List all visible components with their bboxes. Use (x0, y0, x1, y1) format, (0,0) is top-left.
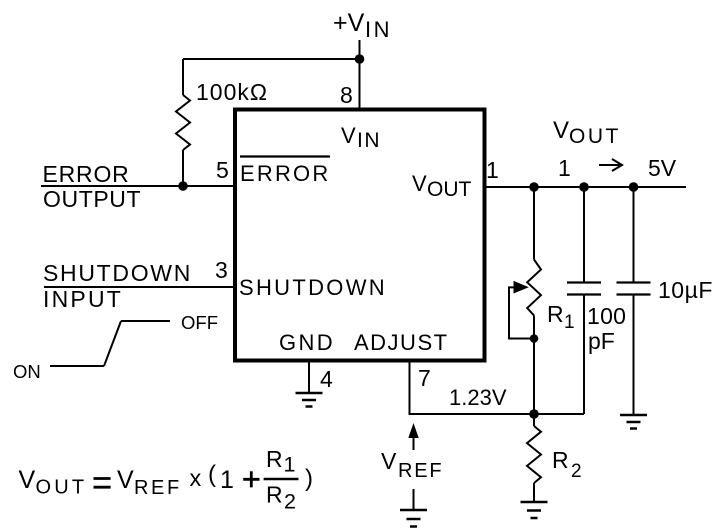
svg-text:1: 1 (486, 157, 499, 183)
capacitor 10uF top lead (633, 187, 635, 283)
svg-text:ERROR: ERROR (240, 161, 330, 186)
wire: pin 4 GND lead (308, 360, 310, 393)
resistor R2 bottom lead (533, 483, 535, 502)
wire: pin 7 ADJUST lead (410, 360, 585, 414)
switch waveform edge (104, 321, 121, 366)
svg-text:V: V (19, 466, 36, 494)
junction dot at +VIN node (355, 54, 365, 64)
svg-text:OUT: OUT (569, 125, 621, 148)
potentiometer R1 zigzag (527, 260, 541, 316)
svg-text:x: x (190, 465, 202, 491)
R1 wiper arrow (514, 282, 528, 293)
junction dot 10uF top (629, 182, 639, 192)
junction dot wiper to R1 bottom (530, 334, 539, 343)
svg-text:V: V (381, 448, 397, 474)
svg-text:1: 1 (558, 155, 571, 181)
svg-text:100kΩ: 100kΩ (196, 79, 268, 105)
svg-text:GND: GND (279, 330, 335, 355)
capacitor 10uF bottom lead (633, 295, 635, 416)
svg-text:pF: pF (588, 328, 615, 354)
VREF ground stub (413, 489, 415, 510)
svg-text:INPUT: INPUT (43, 286, 123, 312)
junction dot adjust node (529, 409, 539, 419)
svg-text:3: 3 (215, 257, 228, 283)
svg-text:5V: 5V (648, 155, 677, 181)
IC U1 (regulator body) (235, 110, 485, 361)
ground symbol below VREF (400, 510, 427, 527)
resistor R 100kΩ top lead (182, 59, 184, 95)
wire: VOUT rail (484, 186, 686, 188)
svg-text:100: 100 (587, 303, 626, 329)
svg-text:2: 2 (284, 489, 296, 513)
capacitor 100pF bottom lead (583, 295, 585, 415)
ground symbol below R2 (521, 502, 548, 518)
capacitor 100pF plates (567, 283, 601, 295)
svg-text:V: V (117, 466, 134, 494)
wire: ERROR output line (41, 185, 235, 187)
wire: pin 8 lead into IC (359, 59, 361, 110)
svg-text:REF: REF (398, 460, 443, 482)
svg-text:1: 1 (284, 452, 296, 476)
svg-text:IN: IN (365, 17, 392, 42)
svg-text:1.23V: 1.23V (449, 385, 507, 410)
potentiometer R1 top lead (533, 187, 535, 260)
wire: +VIN stub above junction (359, 40, 361, 58)
svg-text:10µF: 10µF (658, 277, 713, 303)
wire: SHUTDOWN input line (44, 286, 235, 288)
arrow to 5V (599, 159, 622, 171)
switch waveform OFF level (121, 320, 170, 322)
junction dot resistor/error line (178, 181, 188, 191)
junction dot 100pF top (579, 182, 589, 192)
svg-text:REF: REF (134, 477, 182, 499)
svg-text:2: 2 (571, 461, 582, 482)
R1 wiper wire (509, 287, 534, 338)
svg-text:ADJUST: ADJUST (354, 330, 449, 355)
capacitor 100pF top lead (583, 187, 585, 283)
svg-text:8: 8 (340, 82, 353, 108)
svg-text:R: R (266, 481, 283, 507)
switch waveform ON level (50, 365, 104, 367)
svg-text:ERROR: ERROR (43, 161, 130, 187)
resistor 100kΩ zigzag (176, 95, 190, 150)
svg-text:1: 1 (564, 312, 575, 333)
resistor R2 zigzag (527, 426, 541, 483)
svg-text:4: 4 (320, 366, 333, 392)
svg-text:SHUTDOWN: SHUTDOWN (239, 275, 387, 300)
ground symbol at pin 4 (296, 393, 323, 407)
potentiometer R1 bottom lead (533, 316, 535, 415)
svg-text:SHUTDOWN: SHUTDOWN (43, 260, 192, 286)
svg-text:+V: +V (333, 9, 365, 37)
svg-text:R: R (547, 301, 564, 327)
svg-text:ON: ON (13, 361, 41, 382)
resistor 100kΩ bottom lead (182, 150, 184, 186)
wire: top rail from 100k resistor to VIN pin (183, 58, 360, 60)
svg-text:OUTPUT: OUTPUT (43, 186, 141, 212)
svg-text:R: R (552, 447, 569, 473)
resistor R2 top lead (533, 414, 535, 426)
svg-text:V: V (341, 123, 356, 148)
ground symbol below 10uF (620, 415, 647, 429)
svg-text:7: 7 (418, 365, 431, 391)
svg-text:OFF: OFF (181, 312, 218, 333)
svg-text:1: 1 (220, 466, 234, 494)
formula VOUT = VREF x (1 + R1/R2) (19, 446, 314, 514)
svg-text:V: V (553, 117, 569, 144)
capacitor 10uF plates (617, 283, 651, 295)
svg-text:(: ( (208, 461, 216, 488)
svg-text:R: R (266, 446, 283, 472)
svg-text:V: V (412, 171, 427, 196)
svg-text:OUT: OUT (36, 477, 88, 499)
svg-text:): ) (305, 465, 313, 492)
junction dot R1 top (529, 182, 539, 192)
svg-text:IN: IN (357, 129, 381, 152)
svg-text:OUT: OUT (427, 178, 472, 201)
svg-text:5: 5 (216, 157, 229, 183)
VREF arrow (413, 437, 415, 450)
